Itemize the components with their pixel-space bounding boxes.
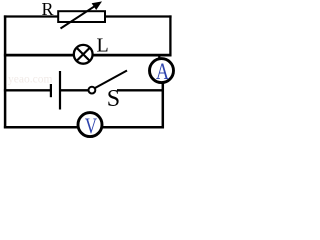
battery cell long plate (59, 71, 61, 110)
wire bottom left segment (4, 126, 79, 129)
wire lamp row right (92, 54, 172, 57)
svg-text:A: A (156, 58, 169, 85)
wire ammeter bottom vertical (162, 82, 165, 128)
wire top right segment (105, 15, 172, 17)
battery cell short plate (50, 84, 52, 97)
wire switch row left (4, 89, 50, 91)
resistor R (rheostat body) (58, 11, 105, 22)
wire top left segment (4, 15, 59, 17)
svg-text:S: S (107, 86, 120, 112)
svg-text:R: R (42, 0, 54, 19)
wire ammeter top stub (158, 54, 160, 60)
wire switch row right (117, 89, 164, 91)
wire switch row middle (61, 89, 90, 91)
switch S pivot (89, 87, 96, 94)
svg-text:V: V (85, 114, 98, 139)
svg-text:L: L (97, 35, 109, 57)
wire left vertical (4, 15, 7, 128)
wire right vertical (169, 15, 171, 56)
lamp L (74, 45, 93, 64)
wire bottom right segment (102, 126, 165, 129)
wire lamp row left (4, 54, 75, 57)
ammeter A (150, 58, 174, 85)
svg-text:yeao.com: yeao.com (8, 74, 52, 86)
switch S lever (95, 71, 127, 89)
voltmeter V (78, 113, 102, 139)
rheostat arrow (61, 1, 103, 28)
